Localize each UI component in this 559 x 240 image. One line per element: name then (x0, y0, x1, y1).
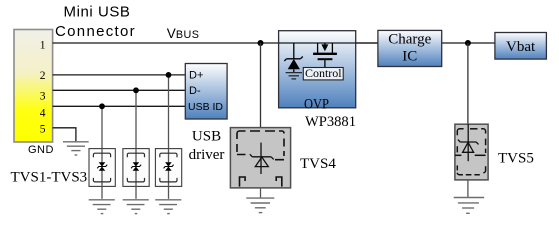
wire TVS4 to ground (260, 188, 262, 198)
label USB driver (189, 128, 225, 163)
svg-text:VBUS: VBUS (167, 26, 200, 41)
TVS2 (123, 149, 149, 187)
mosfet Q1 in OVP (313, 43, 337, 68)
junction VBUS/TVS4 (258, 40, 264, 46)
wire TVS2 drop (135, 90, 137, 199)
svg-text:TVS1-TVS3: TVS1-TVS3 (11, 170, 88, 186)
wire TVS5 to ground (467, 180, 469, 197)
label Mini USB Connector (55, 3, 136, 40)
Charge IC block U3 (378, 30, 442, 66)
wire TVS1 drop (101, 106, 103, 199)
svg-text:Connector: Connector (55, 23, 136, 40)
junction pin2/TVS3 (166, 72, 172, 78)
svg-text:driver: driver (189, 147, 225, 163)
svg-text:D+: D+ (189, 70, 203, 82)
svg-text:TVS5: TVS5 (498, 151, 534, 167)
svg-text:IC: IC (402, 48, 417, 64)
ground zener OVP (286, 73, 302, 79)
ground TVS5 (454, 198, 485, 214)
OVP block U1 (279, 31, 356, 108)
USB driver block U2 (185, 64, 227, 120)
ground TVS2 (123, 200, 149, 214)
wire TVS4 drop (260, 43, 262, 129)
svg-text:USB: USB (192, 128, 221, 144)
wire pin3 D- (53, 89, 186, 91)
connector J1 Mini USB body (14, 30, 53, 143)
zener TVS4 (250, 143, 274, 174)
TVS1 (89, 149, 115, 187)
ground TVS4 (246, 198, 274, 213)
wire pin2 D+ (53, 74, 186, 76)
junction VBUS/TVS5 (465, 40, 471, 46)
TVS3 (155, 149, 181, 187)
junction pin3/TVS2 (133, 87, 139, 93)
svg-text:Mini USB: Mini USB (64, 3, 131, 20)
TVS5 body (455, 124, 488, 180)
label Charge IC (388, 32, 431, 65)
svg-text:4: 4 (40, 108, 46, 120)
svg-text:5: 5 (40, 124, 46, 136)
svg-text:1: 1 (40, 40, 46, 52)
svg-text:3: 3 (40, 91, 46, 103)
svg-text:WP3881: WP3881 (305, 114, 356, 130)
svg-text:OVP: OVP (304, 96, 329, 112)
wire VBUS pin1 to Charge IC (53, 42, 378, 44)
svg-text:Charge: Charge (388, 32, 431, 48)
TVS4 body (230, 128, 290, 188)
svg-text:USB ID: USB ID (188, 101, 223, 113)
zener TVS5 (458, 124, 479, 161)
ground pin5 (63, 142, 89, 155)
ground TVS1 (89, 200, 115, 214)
svg-text:2: 2 (40, 70, 46, 82)
zener D1 in OVP (284, 43, 303, 72)
wire VBUS through OVP redrawn (279, 42, 378, 44)
svg-text:Control: Control (305, 66, 342, 80)
wire pin4 USB ID (53, 105, 186, 107)
svg-text:GND: GND (28, 144, 54, 156)
junction pin4/TVS1 (99, 103, 105, 109)
Vbat block (495, 33, 547, 60)
svg-text:D-: D- (189, 85, 201, 97)
wire Charge IC to Vbat (442, 42, 495, 44)
svg-text:Vbat: Vbat (506, 39, 536, 55)
wire pin5 to ground (53, 128, 76, 142)
wire TVS5 drop (467, 43, 469, 124)
wire TVS3 drop (168, 75, 170, 199)
ground TVS3 (155, 200, 181, 214)
control box in OVP (303, 68, 343, 80)
svg-text:TVS4: TVS4 (300, 156, 336, 172)
